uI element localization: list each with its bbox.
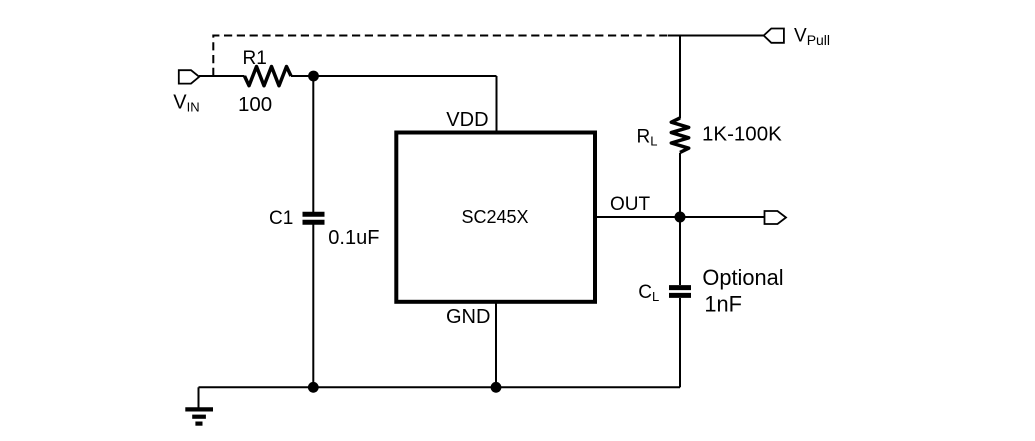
wire: down into VDD pin xyxy=(496,76,498,131)
svg-text:100: 100 xyxy=(238,93,272,116)
wire: junction down to C1 top plate xyxy=(312,76,314,212)
resistor RL (vertical zigzag) xyxy=(671,118,688,152)
wire: solid segment to VPull terminal xyxy=(668,35,764,37)
resistor R1 (zigzag) xyxy=(245,67,292,86)
node: C1 to ground rail junction xyxy=(308,382,319,393)
node: OUT junction xyxy=(675,212,686,223)
svg-text:VPull: VPull xyxy=(794,25,830,48)
svg-text:1K-100K: 1K-100K xyxy=(702,123,782,146)
IC U1 body SC245X xyxy=(396,133,595,302)
terminal VIN (input pad, points right) xyxy=(179,70,199,83)
capacitor C1 (two plates) xyxy=(303,214,325,222)
wire: VPull node down to RL xyxy=(679,36,681,119)
wire: R1 right lead to VDD corner xyxy=(291,75,497,77)
capacitor CL (two plates) xyxy=(669,288,691,296)
wire: VIN tip to R1 left lead xyxy=(199,75,245,77)
ground (stem and three bars) xyxy=(185,387,213,423)
svg-text:VDD: VDD xyxy=(446,109,488,131)
svg-text:0.1uF: 0.1uF xyxy=(328,227,379,249)
svg-text:R1: R1 xyxy=(243,48,267,69)
svg-text:CL: CL xyxy=(638,282,659,304)
wire: GND pin down to ground rail xyxy=(495,303,497,388)
wire: bottom ground rail xyxy=(199,386,681,388)
wire: OUT pin to output terminal xyxy=(596,216,765,218)
wire: CL bottom plate down, corner to bottom rail xyxy=(679,298,681,387)
svg-text:VIN: VIN xyxy=(173,92,199,115)
svg-text:Optional: Optional xyxy=(702,265,783,290)
svg-text:SC245X: SC245X xyxy=(462,207,529,227)
svg-text:1nF: 1nF xyxy=(704,292,742,317)
svg-text:C1: C1 xyxy=(269,208,293,229)
wire: dashed VPull feed (up from VIN node, across the top) xyxy=(213,36,668,77)
svg-text:GND: GND xyxy=(446,306,490,328)
wire: RL bottom to OUT node and on to CL top plate xyxy=(679,153,681,285)
terminal OUT pad (points right) xyxy=(765,211,787,224)
node: R1 / C1 / VDD junction xyxy=(308,71,319,82)
wire: C1 bottom plate to ground rail xyxy=(312,225,314,388)
svg-text:OUT: OUT xyxy=(610,194,651,215)
svg-text:RL: RL xyxy=(637,127,658,149)
node: GND pin to ground rail junction xyxy=(491,382,502,393)
terminal VPULL (pad, points left) xyxy=(764,29,784,43)
